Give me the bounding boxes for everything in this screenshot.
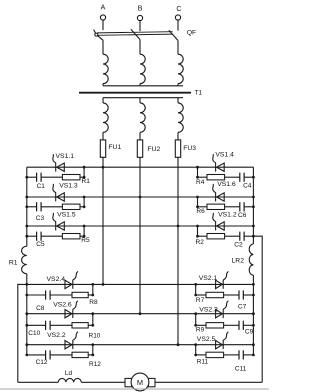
junction R6 link / snubber row2 (196, 205, 199, 208)
wire switch to T1 primary C (177, 41, 179, 55)
junction right rail / C9 row (252, 324, 255, 327)
switch QF linkage bar lower line (97, 34, 172, 35)
svg-text:VS1.6: VS1.6 (217, 181, 236, 188)
resistor right row 1 (207, 175, 225, 180)
svg-text:VS1.5: VS1.5 (57, 211, 76, 218)
junction row3 / right snubber link (196, 225, 199, 228)
svg-text:C3: C3 (36, 215, 45, 222)
switch QF blade pole A (94, 30, 104, 41)
svg-text:VS1.3: VS1.3 (59, 183, 78, 190)
wire link to resistor right row 3 (198, 235, 208, 237)
wire snubber row bottom-left 2 (27, 324, 46, 326)
junction left rail / C8 row (25, 294, 28, 297)
link snubber right row 3 (197, 226, 199, 236)
terminal B (137, 15, 142, 20)
thyristor VS2.3 (216, 310, 223, 318)
capacitor C6 (239, 202, 241, 211)
wire cap to resistor bottom-left 3 (50, 354, 72, 356)
motor M circle (131, 373, 149, 391)
svg-text:C9: C9 (245, 329, 254, 336)
svg-text:VS1.2: VS1.2 (218, 212, 237, 219)
junction R9 link / snubber row5 (194, 324, 197, 327)
junction left rail / C5 row (25, 235, 28, 238)
thyristor VS2.2 (65, 341, 72, 349)
node row1 wire (phase A bus) (27, 166, 254, 168)
scan bottom edge (0, 388, 269, 390)
T1 primary winding C (178, 54, 183, 83)
wire cap to resistor bottom-left 2 (50, 324, 72, 326)
resistor left row 3 (62, 234, 80, 239)
wire resistor to link left row 2 (80, 206, 84, 208)
node row2 wire (phase B bus) (27, 196, 254, 198)
junction right rail / row4 (252, 283, 255, 286)
wire link to resistor right row 2 (198, 206, 208, 208)
junction R8 link / snubber row4 (91, 294, 94, 297)
wire switch to T1 primary B (139, 40, 141, 55)
terminal A (100, 15, 105, 20)
right dc rail upper (252, 167, 254, 244)
junction left rail / C12 row (25, 354, 28, 357)
thyristor VS1.1 (55, 163, 57, 172)
junction R4 link / snubber row1 (196, 176, 199, 179)
right dc rail lower (252, 275, 254, 355)
wire cap to rail right row 2 (244, 206, 253, 208)
svg-text:R6: R6 (196, 208, 205, 215)
svg-text:LR2: LR2 (232, 258, 245, 265)
resistor bottom-left row 1 (72, 292, 88, 297)
junction C5 link / snubber row3 (83, 235, 86, 238)
resistor bottom-left row 3 (72, 352, 88, 357)
svg-text:R5: R5 (81, 237, 90, 244)
svg-text:C6: C6 (238, 212, 247, 219)
wire cap to rail bottom-right 3 (243, 354, 253, 356)
wire resistor to cap bottom-right 3 (224, 354, 239, 356)
capacitor C4 (239, 173, 241, 182)
link snubber bottom-left 2 (92, 314, 94, 326)
bottom wire right (155, 381, 262, 383)
wire T1 secondary to fuse FU3 (177, 132, 179, 167)
junction row4 / phase A rail end (102, 283, 105, 286)
junction right rail / row5 (252, 312, 255, 315)
wire link to resistor bottom-right 2 (196, 324, 206, 326)
node row4 wire (VS2 phase A bus) (27, 283, 254, 285)
svg-text:R12: R12 (89, 361, 101, 368)
wire phase C rail (177, 167, 179, 345)
thyristor VS1.2 (215, 221, 217, 230)
wire cap to resistor left row 1 (41, 176, 62, 178)
svg-text:R9: R9 (196, 327, 205, 334)
wire link to resistor bottom-right 1 (196, 294, 206, 296)
capacitor C1 (36, 173, 38, 182)
svg-text:R8: R8 (89, 299, 98, 306)
resistor bottom-right row 3 (206, 352, 224, 357)
thyristor VS2.4 (65, 280, 72, 288)
capacitor C5 (36, 232, 38, 241)
capacitor C11 (238, 350, 240, 359)
svg-text:QF: QF (187, 30, 196, 37)
thyristor VS1.6 (215, 192, 217, 201)
link snubber right row 1 (197, 167, 199, 177)
svg-text:T1: T1 (195, 90, 203, 97)
svg-text:C8: C8 (36, 305, 45, 312)
junction row6 / phase C rail end (177, 343, 180, 346)
junction R12 link / snubber row6 (91, 354, 94, 357)
junction left rail / row4 and outer branch (25, 283, 28, 286)
svg-text:M: M (137, 378, 143, 387)
switch QF linkage bar upper line (97, 32, 172, 33)
terminal C (175, 15, 180, 20)
wire snubber row left 3 (27, 235, 37, 237)
wire resistor to cap right row 3 (225, 235, 240, 237)
svg-text:VS2.1: VS2.1 (199, 275, 218, 282)
svg-text:C4: C4 (243, 183, 252, 190)
link snubber bottom-right 2 (195, 314, 197, 326)
svg-text:VS1.1: VS1.1 (56, 153, 75, 160)
junction right rail / row6 (252, 343, 255, 346)
switch QF pivot circle pole A (95, 33, 98, 36)
junction row2 / left snubber link (83, 196, 86, 199)
T1 primary common bus (103, 85, 183, 87)
wire resistor to cap right row 2 (225, 206, 240, 208)
junction left rail / C10 row (25, 324, 28, 327)
svg-text:R7: R7 (196, 297, 205, 304)
junction R7 link / snubber row4 (194, 294, 197, 297)
resistor left row 1 (62, 175, 80, 180)
wire switch to T1 primary A (102, 40, 104, 54)
link snubber bottom-right 1 (195, 284, 197, 295)
wire cap to rail right row 1 (244, 176, 253, 178)
resistor right row 2 (207, 204, 225, 209)
bottom wire middle (81, 381, 125, 383)
left dc rail upper (26, 167, 28, 246)
wire snubber row left 1 (27, 176, 37, 178)
resistor bottom-right row 2 (206, 323, 224, 328)
motor brush left (125, 378, 132, 386)
wire snubber row bottom-left 1 (27, 294, 46, 296)
svg-text:C2: C2 (234, 241, 243, 248)
wire cap to resistor bottom-left 1 (50, 294, 72, 296)
outer right rail (253, 236, 262, 382)
svg-text:B: B (138, 5, 143, 12)
node row5 wire (VS2 phase B bus) (27, 313, 254, 315)
junction right rail / C4 row (252, 176, 255, 179)
svg-text:VS1.4: VS1.4 (215, 152, 234, 159)
link snubber bottom-left 1 (92, 284, 94, 295)
fuse FU1 (100, 140, 105, 157)
wire resistor to cap bottom-right 2 (224, 324, 239, 326)
junction row6 / R12 link (91, 343, 94, 346)
junction row4 / R8 link (91, 283, 94, 286)
resistor bottom-right row 1 (206, 292, 224, 297)
svg-text:C1: C1 (37, 183, 46, 190)
resistor left row 2 (62, 204, 80, 209)
junction left rail / C3 row (25, 205, 28, 208)
junction R2 link / snubber row3 (196, 235, 199, 238)
svg-text:C5: C5 (36, 241, 45, 248)
junction row5 / R9 link (194, 312, 197, 315)
wire resistor to cap right row 1 (225, 176, 240, 178)
junction left rail / row3 (25, 225, 28, 228)
wire snubber row left 2 (27, 206, 37, 208)
capacitor C9 (238, 321, 240, 330)
svg-text:FU2: FU2 (147, 146, 160, 153)
svg-text:C10: C10 (28, 330, 40, 337)
link snubber right row 2 (197, 197, 199, 207)
svg-text:C7: C7 (238, 303, 247, 310)
junction row3 / phase C rail (177, 225, 180, 228)
capacitor C2 (239, 232, 241, 241)
junction right rail / C11 row (252, 354, 255, 357)
svg-text:C12: C12 (36, 359, 48, 366)
wire cap to resistor left row 2 (41, 206, 62, 208)
capacitor C7 (238, 290, 240, 299)
thyristor VS2.1 (216, 280, 223, 288)
wire resistor to link bottom-left 2 (88, 324, 93, 326)
wire resistor to cap bottom-right 1 (224, 294, 239, 296)
junction row4 / R7 link (194, 283, 197, 286)
junction row6 / R11 link (194, 343, 197, 346)
svg-text:A: A (101, 4, 106, 11)
wire link to resistor bottom-right 3 (196, 354, 206, 356)
svg-text:VS2.2: VS2.2 (47, 332, 66, 339)
resistor bottom-left row 2 (72, 323, 88, 328)
T1 secondary winding c (177, 98, 179, 103)
wire T1 secondary to fuse FU1 (102, 132, 104, 167)
thyristor VS2.5 (216, 341, 223, 349)
junction row3 / left snubber link (83, 225, 86, 228)
wire phase A rail (102, 167, 104, 284)
inductor R1 (22, 246, 27, 274)
svg-text:VS2.6: VS2.6 (53, 302, 72, 309)
thyristor VS1.5 (55, 221, 57, 230)
inductor LR2 (249, 244, 253, 275)
wire resistor to link left row 1 (80, 176, 84, 178)
fuse FU2 (137, 140, 142, 157)
T1 primary winding A (103, 54, 108, 83)
junction row2 / right snubber link (196, 196, 199, 199)
wire snubber row bottom-left 3 (27, 354, 46, 356)
fuse FU3 (175, 140, 180, 157)
junction left rail / row5 (25, 312, 28, 315)
svg-text:R1: R1 (9, 259, 18, 266)
junction R11 link / snubber row6 (194, 354, 197, 357)
svg-text:VS2.5: VS2.5 (197, 336, 216, 343)
bottom wire left (18, 381, 58, 383)
junction row1 / phase A fuse FU1 (102, 166, 105, 169)
wire cap to rail right row 3 (244, 235, 253, 237)
T1 core (79, 92, 191, 94)
junction C1-R1 link / snubber row1 (83, 176, 86, 179)
inductor Ld (58, 378, 81, 382)
junction left rail / C1 row (25, 176, 28, 179)
thyristor VS1.3 (55, 192, 57, 201)
svg-text:VS2.4: VS2.4 (47, 276, 66, 283)
T1 secondary common bus (103, 97, 183, 99)
node row6 wire (VS2 phase C bus) (27, 344, 254, 346)
svg-text:R10: R10 (89, 332, 101, 339)
junction row1 / right snubber link (196, 166, 199, 169)
svg-text:FU1: FU1 (108, 144, 121, 151)
junction left rail / row6 (25, 343, 28, 346)
capacitor C8 (45, 290, 47, 299)
T1 primary winding B (140, 54, 145, 83)
svg-text:C11: C11 (235, 365, 247, 372)
wire resistor to link bottom-left 3 (88, 354, 93, 356)
wire resistor to link left row 3 (80, 235, 84, 237)
svg-text:C: C (176, 6, 181, 13)
junction row5 / phase B rail end (139, 312, 142, 315)
resistor right row 3 (207, 234, 225, 239)
junction right rail / C2 row and outer branch (252, 235, 255, 238)
junction right rail / C7 row (252, 294, 255, 297)
svg-text:VS2.3: VS2.3 (199, 306, 218, 313)
junction R10 link / snubber row5 (91, 324, 94, 327)
svg-text:R2: R2 (196, 239, 205, 246)
junction row1 / left snubber link (83, 166, 86, 169)
wire T1 secondary to fuse FU2 (139, 132, 141, 167)
svg-text:R1: R1 (82, 178, 91, 185)
svg-text:FU3: FU3 (183, 145, 196, 152)
outer left rail (18, 284, 27, 382)
left dc rail lower (26, 274, 28, 355)
thyristor VS1.4 (215, 163, 217, 172)
switch QF blade pole B (131, 29, 140, 39)
svg-text:Ld: Ld (65, 370, 73, 377)
junction row2 / phase B rail (139, 196, 142, 199)
thyristor VS2.6 (65, 310, 72, 318)
wire phase B rail (139, 167, 141, 314)
wire link to resistor right row 1 (198, 176, 208, 178)
link snubber bottom-left 3 (92, 345, 94, 355)
wire phase B to switch (139, 21, 141, 32)
T1 secondary winding b (139, 98, 141, 103)
wire cap to rail bottom-right 2 (243, 324, 253, 326)
wire resistor to link bottom-left 1 (88, 294, 93, 296)
svg-text:R11: R11 (197, 359, 209, 366)
junction C3 link / snubber row2 (83, 205, 86, 208)
capacitor C12 (45, 350, 47, 359)
wire phase A to switch (102, 20, 104, 30)
junction right rail / row2 (252, 196, 255, 199)
link snubber left row 2 (83, 197, 85, 207)
node row3 wire (phase C bus) (27, 225, 254, 227)
link snubber bottom-right 3 (195, 345, 197, 355)
wire cap to rail bottom-right 1 (243, 294, 253, 296)
T1 secondary winding a (102, 98, 104, 103)
switch QF blade pole C (169, 30, 178, 40)
junction right rail / C6 row (252, 205, 255, 208)
junction row5 / R10 link (91, 312, 94, 315)
capacitor C3 (36, 202, 38, 211)
svg-text:R4: R4 (196, 179, 205, 186)
motor brush right (148, 378, 155, 386)
capacitor C10 (45, 321, 47, 330)
junction left rail / row2 (25, 196, 28, 199)
junction right rail / row3 (252, 225, 255, 228)
link snubber left row 3 (83, 226, 85, 236)
wire phase C to switch (177, 20, 179, 31)
link snubber left row 1 (83, 167, 85, 177)
wire cap to resistor left row 3 (41, 235, 62, 237)
